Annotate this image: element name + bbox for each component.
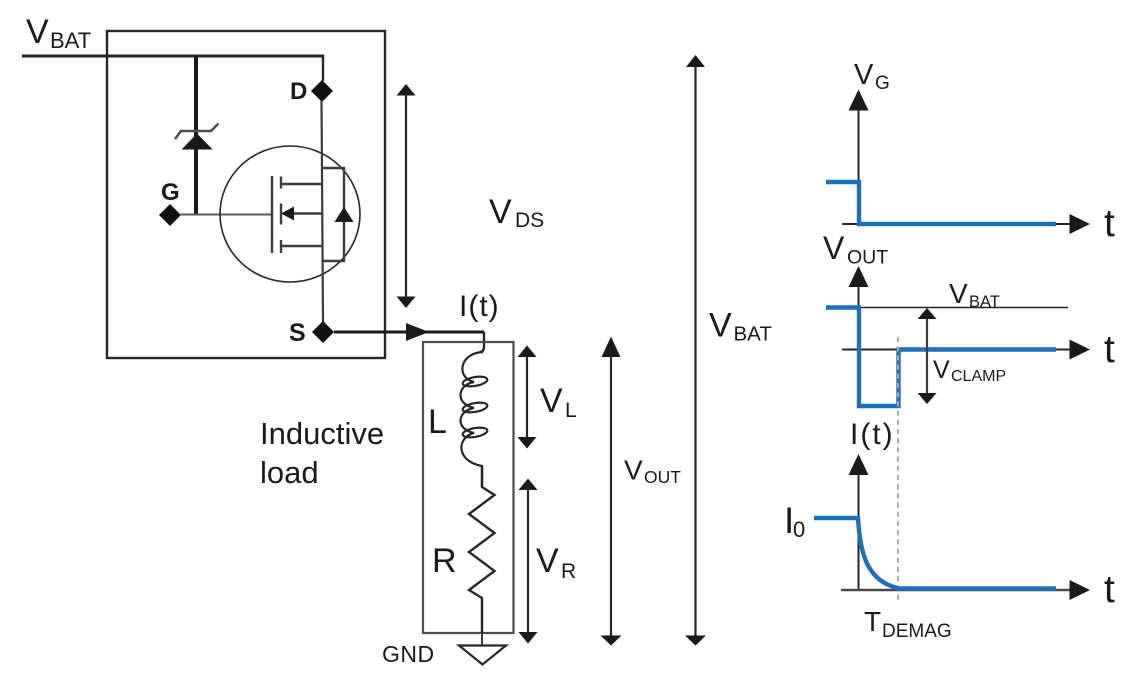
svg-text:BAT: BAT: [734, 323, 773, 346]
svg-text:T: T: [864, 606, 881, 637]
arrow VOUT (middle): [601, 337, 622, 646]
svg-text:V: V: [854, 59, 874, 91]
svg-text:Inductive: Inductive: [260, 416, 384, 451]
arrow VR: [519, 479, 538, 644]
label VBAT (middle): [709, 307, 772, 346]
waveform VOUT: [826, 308, 1056, 407]
label VDS: [489, 193, 544, 232]
axis VOUT horizontal t: [842, 340, 1090, 360]
svg-text:V: V: [949, 278, 968, 309]
svg-text:t: t: [1104, 202, 1115, 245]
svg-text:V: V: [489, 193, 512, 231]
wire zener branch: [194, 56, 198, 215]
node D diamond: [311, 80, 333, 102]
arrow VCLAMP: [918, 308, 937, 404]
transistor Q1 internals: [272, 176, 322, 253]
axis I vertical: [849, 454, 869, 590]
axis I horizontal t: [841, 580, 1090, 600]
node S diamond: [312, 321, 334, 343]
svg-text:V: V: [540, 382, 563, 420]
svg-text:V: V: [709, 307, 732, 345]
node G diamond: [159, 204, 181, 226]
resistor R: [469, 466, 495, 633]
wire gate lead: [181, 214, 272, 216]
label Inductive load: [260, 416, 384, 490]
drain stub: [281, 183, 322, 185]
source stub: [281, 245, 322, 247]
svg-text:0: 0: [793, 517, 805, 542]
svg-text:BAT: BAT: [50, 28, 91, 53]
label I0: [784, 500, 805, 542]
svg-text:DS: DS: [515, 209, 544, 232]
arrow VBAT (middle): [685, 55, 706, 646]
line VBAT level: [858, 307, 1068, 309]
waveform VG: [826, 182, 1056, 224]
svg-text:G: G: [161, 179, 180, 206]
svg-text:V: V: [823, 230, 845, 266]
label VG: [854, 59, 890, 94]
wire into load: [480, 332, 484, 352]
svg-text:I(t): I(t): [459, 290, 500, 323]
axis VOUT vertical: [849, 266, 869, 350]
ground: [459, 633, 506, 665]
op-amp: MOSFET body circle U1: [220, 146, 360, 282]
svg-text:G: G: [875, 73, 890, 94]
label VOUT (plot): [823, 230, 888, 269]
svg-text:OUT: OUT: [644, 467, 681, 487]
svg-text:D: D: [290, 78, 307, 105]
waveform I(t): [814, 518, 1056, 589]
channel segment mid: [280, 204, 282, 225]
channel segment top: [280, 177, 282, 189]
svg-text:t: t: [1104, 328, 1115, 371]
svg-text:S: S: [289, 319, 306, 347]
axis VG horizontal t: [842, 214, 1090, 234]
label VL: [540, 382, 577, 422]
wire drain top: [322, 55, 324, 82]
svg-text:DEMAG: DEMAG: [882, 621, 952, 642]
wire source output with current arrow: [334, 331, 484, 334]
svg-text:t: t: [1104, 568, 1115, 611]
switch IC box: [107, 31, 385, 358]
label VBAT (plot): [949, 278, 1000, 311]
gate bar: [271, 176, 273, 253]
svg-text:L: L: [565, 399, 577, 422]
load box: [423, 342, 514, 633]
channel segment bottom: [280, 240, 282, 253]
arrow VL: [518, 346, 537, 449]
axis VG vertical: [849, 90, 869, 225]
body diode arrow: [335, 207, 354, 222]
zener diode D1: [175, 124, 219, 150]
svg-text:V: V: [26, 13, 49, 51]
label VOUT (middle): [624, 455, 681, 488]
svg-text:load: load: [260, 455, 319, 490]
dashed line TDEMAG: [897, 337, 899, 601]
inductor L: [460, 352, 488, 487]
svg-text:BAT: BAT: [969, 293, 1000, 311]
node VBAT label: [26, 13, 91, 53]
label VCLAMP: [933, 356, 1006, 385]
body stub: [293, 212, 322, 214]
svg-text:V: V: [933, 356, 950, 384]
label TDEMAG: [864, 606, 952, 642]
wire drain-source vertical: [322, 101, 324, 322]
body arrow of Q1: [281, 207, 294, 221]
svg-text:GND: GND: [382, 641, 435, 667]
wire VBAT rail: [22, 55, 323, 58]
label VR: [536, 542, 576, 583]
svg-text:L: L: [428, 403, 447, 441]
svg-text:V: V: [624, 455, 643, 486]
svg-text:R: R: [561, 560, 576, 583]
current arrowhead: [406, 323, 429, 341]
svg-text:V: V: [536, 542, 559, 580]
svg-text:CLAMP: CLAMP: [951, 368, 1006, 385]
arrow VDS: [397, 84, 416, 308]
svg-text:OUT: OUT: [847, 247, 888, 269]
body diode bracket: [322, 168, 345, 261]
svg-text:I(t): I(t): [850, 418, 895, 451]
svg-text:R: R: [432, 542, 457, 580]
